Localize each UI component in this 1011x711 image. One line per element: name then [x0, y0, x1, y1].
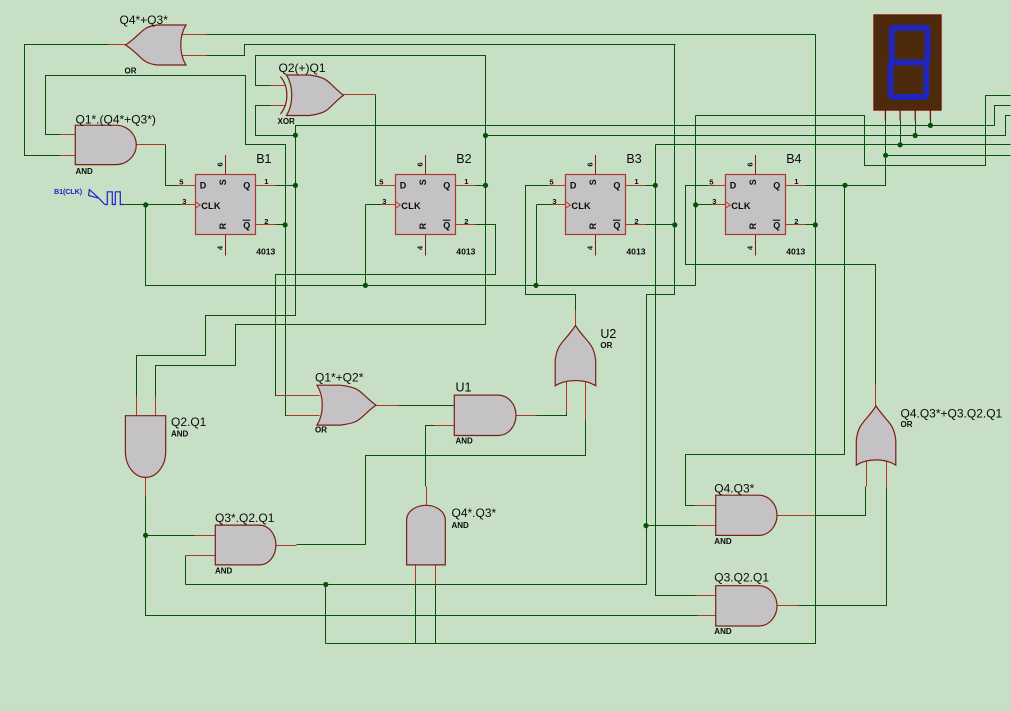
7-segment display: [874, 15, 941, 121]
xor-gate Q2(+)Q1: [287, 75, 344, 116]
wire net Q4* long vertical: [326, 35, 816, 644]
wire net Q2 row: [486, 116, 1011, 136]
pin AND2 input B: [155, 397, 157, 416]
pin U1 output: [517, 415, 537, 417]
svg-text:2: 2: [634, 217, 638, 226]
wire net Q4* loop right: [415, 585, 417, 644]
pin AND3 output: [276, 545, 297, 547]
wire AND5 output run: [797, 487, 866, 516]
pin AND1 input B: [60, 155, 76, 157]
junction B1.Q: [293, 183, 298, 188]
junction B4.Q: [842, 183, 847, 188]
wire net Q3* upper rail: [207, 45, 676, 56]
pin U2 input A: [566, 377, 568, 413]
svg-text:Q1*.(Q4*+Q3*): Q1*.(Q4*+Q3*): [76, 113, 156, 127]
wire AND2 out to AND3 upper input: [146, 535, 195, 537]
junction B1.Q riser: [293, 133, 298, 138]
svg-text:Q1*+Q2*: Q1*+Q2*: [315, 371, 364, 385]
svg-text:6: 6: [215, 162, 224, 166]
svg-text:3: 3: [182, 197, 186, 206]
wire B4.D run: [686, 186, 876, 385]
svg-text:D: D: [400, 181, 407, 191]
wire display pin4 drop: [930, 121, 932, 126]
pin XOR input A: [271, 85, 285, 87]
junction Q4 row: [883, 153, 888, 158]
wire display seg rail jog: [1006, 115, 1011, 117]
junction display pin2: [898, 142, 903, 147]
wire B1.Q down run: [137, 136, 296, 397]
wire net Q1* vertical: [286, 225, 287, 416]
junction B2 clock: [363, 283, 368, 288]
wire OR2 output to U1: [399, 405, 455, 407]
svg-text:AND: AND: [215, 567, 233, 576]
clock pulse source B1(CLK): [54, 187, 124, 205]
svg-text:R: R: [748, 222, 758, 229]
junction display pin3: [913, 133, 918, 138]
or-gate U2 (pointing up): [555, 326, 596, 386]
pin OR2 input A: [277, 395, 320, 397]
svg-text:Q2.Q1: Q2.Q1: [171, 415, 207, 429]
svg-text:Q: Q: [773, 181, 780, 191]
wire clock bus: [146, 205, 696, 286]
pin XOR output: [344, 94, 376, 96]
pin AND2 output: [145, 478, 147, 497]
wire B1.D from AND1 output: [166, 145, 179, 186]
svg-text:CLK: CLK: [201, 201, 221, 211]
svg-text:4013: 4013: [456, 247, 475, 257]
wire U1 lower input riser: [426, 426, 435, 487]
svg-text:Q: Q: [613, 181, 620, 191]
junction Q3* feed: [643, 523, 648, 528]
svg-text:S: S: [748, 179, 758, 185]
wire B2 clock: [366, 204, 383, 206]
svg-text:S: S: [218, 179, 228, 185]
wire B3 clock drop: [536, 205, 538, 286]
svg-text:Q4.Q3*: Q4.Q3*: [714, 481, 754, 495]
or-gate OR3 Q4.Q3*+Q3.Q2.Q1 (pointing up): [856, 406, 896, 465]
pin OR1 output: [109, 44, 126, 46]
pin OR3 input B: [886, 456, 888, 489]
pin AND3 input A: [195, 535, 216, 537]
pin U2 input B: [585, 377, 587, 421]
svg-text:B1: B1: [256, 152, 271, 166]
svg-text:OR: OR: [315, 426, 327, 435]
svg-text:U1: U1: [456, 381, 472, 395]
wire clock top run: [696, 96, 1011, 166]
pin OR1 input A: [183, 34, 207, 36]
or-gate OR2 Q1*+Q2*: [317, 385, 376, 425]
svg-text:AND: AND: [714, 537, 732, 546]
junction B1 clock: [143, 202, 148, 207]
pin AND2 input A: [136, 397, 138, 416]
svg-text:OR: OR: [125, 67, 137, 76]
svg-text:S: S: [588, 179, 598, 185]
and-gate AND2 Q2.Q1 (pointing down): [125, 416, 165, 478]
wire OR2 upper input: [276, 395, 279, 397]
svg-text:2: 2: [464, 217, 468, 226]
or-gate OR1 Q4*+Q3* (mirrored, output left): [126, 25, 187, 65]
wire net Q3 long vertical: [656, 145, 696, 596]
wire B4.Q to display: [845, 121, 886, 186]
wire AND4 right input drop: [435, 585, 437, 644]
svg-text:Q4.Q3*+Q3.Q2.Q1: Q4.Q3*+Q3.Q2.Q1: [901, 406, 1003, 420]
wire B4 clock drop: [695, 116, 697, 286]
pin AND5 input A: [695, 505, 716, 507]
svg-text:Q: Q: [443, 181, 450, 191]
svg-text:6: 6: [586, 162, 595, 166]
pin AND4 output: [426, 487, 428, 506]
pin OR3 output: [875, 385, 877, 407]
wire XOR output to B2.D: [376, 95, 379, 186]
svg-text:B3: B3: [626, 152, 641, 166]
svg-text:S: S: [418, 179, 428, 185]
pin AND3 input B: [186, 555, 216, 557]
wire B3 clock: [537, 204, 553, 206]
pin AND1 input A: [60, 134, 76, 136]
svg-text:3: 3: [382, 197, 386, 206]
svg-text:Q: Q: [613, 221, 620, 231]
svg-text:OR: OR: [600, 341, 612, 350]
svg-text:D: D: [200, 181, 207, 191]
wire B4.Qbar to vertical: [806, 224, 816, 226]
pin AND6 output: [777, 605, 799, 607]
svg-text:Q: Q: [243, 221, 250, 231]
wire B2.Qbar run: [276, 225, 496, 396]
wire net Q4 long vertical: [686, 186, 845, 506]
wire net Q3* into AND gates: [647, 525, 696, 527]
wire AND6 output run: [797, 489, 887, 606]
wire B3.Qbar to vertical: [646, 224, 675, 226]
wire AND3 output run: [297, 421, 586, 545]
pin AND6 input A: [696, 595, 716, 597]
svg-text:AND: AND: [714, 627, 732, 636]
pin XOR input B: [271, 105, 285, 107]
wire B4 clock: [696, 204, 713, 206]
wire XOR lower input from B1.Q: [256, 106, 296, 136]
svg-text:CLK: CLK: [571, 201, 591, 211]
wire net Q2 long vertical: [156, 56, 486, 397]
flip-flop B3 4013: [549, 152, 646, 257]
svg-text:3: 3: [552, 197, 556, 206]
pin AND1 output: [137, 144, 166, 146]
wire B3.Q to junction: [646, 185, 656, 187]
wire AND2 output drop: [146, 497, 698, 616]
pin U1 input B: [435, 425, 455, 427]
wire net Q4* top rail: [207, 34, 816, 36]
svg-text:Q: Q: [773, 221, 780, 231]
wire net Q3 row: [656, 144, 1011, 146]
junction Q2 row: [483, 133, 488, 138]
svg-text:Q2(+)Q1: Q2(+)Q1: [279, 61, 326, 75]
wire display pin2 drop: [900, 121, 902, 145]
svg-text:3: 3: [712, 197, 716, 206]
pin OR2 output: [377, 405, 399, 407]
and-gate AND6 Q3.Q2.Q1: [716, 586, 777, 626]
pin AND4 input A: [415, 565, 417, 585]
flip-flop B1 4013: [179, 152, 276, 257]
svg-text:AND: AND: [452, 521, 470, 530]
wire net Q4* loop left: [325, 585, 327, 644]
and-gate AND4 Q4*.Q3* (pointing up): [407, 505, 446, 565]
svg-text:4013: 4013: [786, 247, 805, 257]
wire B2.Q to junction: [476, 185, 486, 187]
flip-flop B4 4013: [709, 152, 806, 257]
pin OR3 input A: [866, 456, 868, 487]
wire net Q3* long drop: [186, 45, 675, 585]
wire XOR upper input from B2.Q rail: [256, 56, 486, 136]
junction B2.Q: [483, 183, 488, 188]
wire OR1 output to AND1 lower input: [25, 45, 126, 156]
wire AND5 upper input: [686, 505, 695, 507]
svg-text:4013: 4013: [256, 247, 275, 257]
and-gate AND5 Q4.Q3*: [716, 495, 777, 535]
pin AND4 input B: [435, 565, 437, 585]
junction B3.Q: [653, 183, 658, 188]
svg-text:6: 6: [745, 162, 754, 166]
svg-text:Q3.Q2.Q1: Q3.Q2.Q1: [714, 571, 769, 585]
wire AND3 lower input riser: [185, 556, 187, 585]
svg-text:Q: Q: [443, 221, 450, 231]
and-gate AND3 Q3*.Q2.Q1: [215, 525, 276, 565]
wire AND1 upper input loop: [46, 76, 286, 226]
svg-text:4013: 4013: [626, 247, 645, 257]
junction AND2 output: [143, 533, 148, 538]
svg-text:B4: B4: [786, 152, 801, 166]
wire display pin3 drop: [915, 121, 917, 136]
svg-text:B2: B2: [456, 152, 471, 166]
svg-text:D: D: [730, 181, 737, 191]
wire B1 clock: [125, 204, 182, 206]
junction Q4* loop: [323, 582, 328, 587]
and-gate AND1 Q1*.(Q4*+Q3*): [75, 125, 136, 164]
pin OR2 input B: [287, 415, 320, 417]
pin OR1 input B: [183, 55, 207, 57]
wire OR3 output riser: [875, 265, 877, 385]
flip-flop B2 4013: [379, 152, 476, 257]
svg-text:R: R: [588, 222, 598, 229]
svg-text:OR: OR: [901, 420, 913, 429]
wire B4.Q to junction: [806, 185, 845, 187]
and-gate U1: [454, 395, 516, 435]
svg-text:XOR: XOR: [278, 117, 296, 126]
svg-text:Q: Q: [243, 181, 250, 191]
pin AND5 output: [777, 515, 816, 517]
svg-text:R: R: [218, 222, 228, 229]
pin AND5 input B: [696, 525, 716, 527]
svg-text:B1(CLK): B1(CLK): [54, 187, 83, 196]
svg-text:U2: U2: [600, 327, 616, 341]
junction B3 clock: [533, 283, 538, 288]
svg-text:Q4*.Q3*: Q4*.Q3*: [452, 506, 497, 520]
svg-text:AND: AND: [76, 167, 94, 176]
pin U2 output: [575, 311, 577, 326]
svg-text:R: R: [418, 222, 428, 229]
junction B1.Qbar: [283, 222, 288, 227]
svg-text:6: 6: [415, 162, 424, 166]
wire B3.D from U2: [526, 186, 576, 311]
wire B1.Qbar to vertical: [276, 224, 286, 226]
pin AND6 input B: [698, 615, 716, 617]
svg-text:D: D: [570, 181, 577, 191]
wire U1 output to U2: [537, 413, 567, 416]
junction B4 clock: [693, 202, 698, 207]
wire OR2 lower input: [286, 415, 288, 417]
wire net Q1 row: [296, 106, 1011, 136]
wire B1.Q to junction: [276, 185, 296, 187]
junction display pin4: [928, 123, 933, 128]
svg-text:Q3*.Q2.Q1: Q3*.Q2.Q1: [215, 511, 275, 525]
svg-text:AND: AND: [171, 429, 189, 438]
svg-text:2: 2: [794, 217, 798, 226]
svg-text:CLK: CLK: [731, 201, 751, 211]
svg-text:Q4*+Q3*: Q4*+Q3*: [120, 13, 169, 27]
svg-text:CLK: CLK: [401, 201, 421, 211]
svg-text:2: 2: [264, 217, 268, 226]
wire B2 clock drop: [365, 205, 367, 286]
svg-text:AND: AND: [456, 436, 474, 445]
wire net Q4 row: [886, 155, 1011, 157]
junction B4.Qbar: [813, 222, 818, 227]
junction B3.Qbar: [672, 222, 677, 227]
